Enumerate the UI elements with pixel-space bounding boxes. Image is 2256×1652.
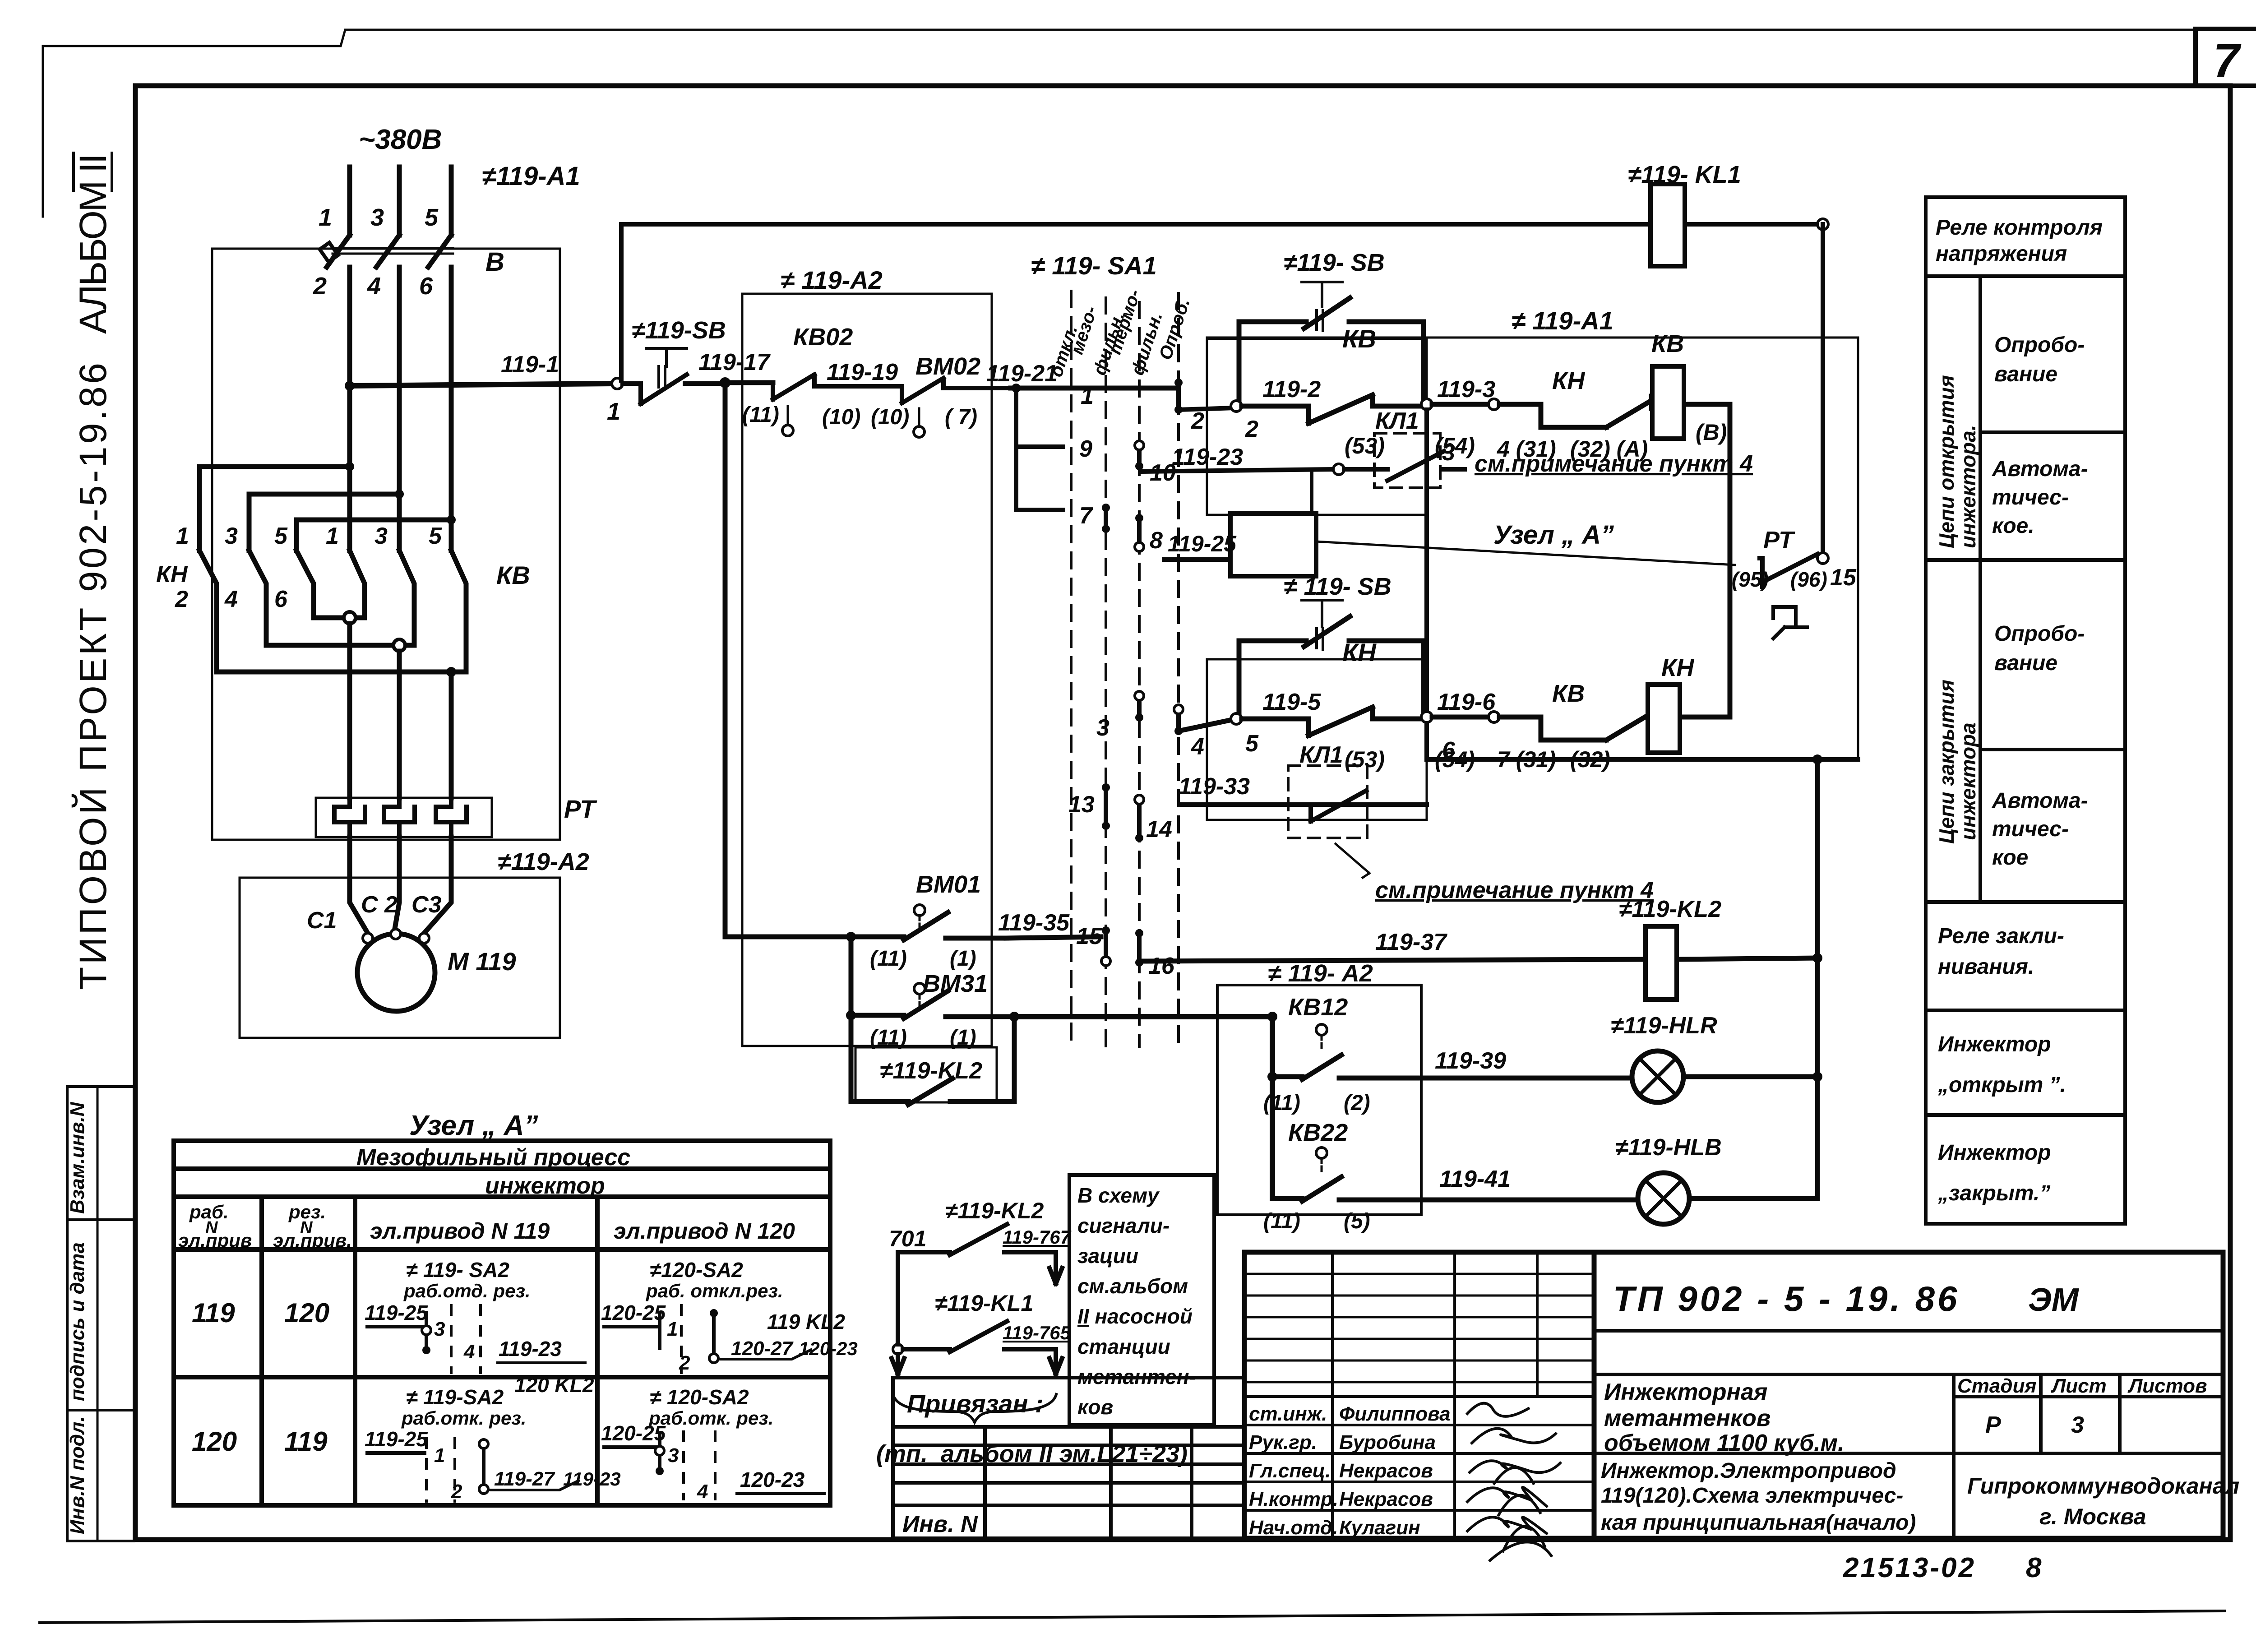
svg-text:(1): (1) xyxy=(950,1026,976,1050)
svg-text:1: 1 xyxy=(667,1318,678,1340)
svg-text:≠119- SB: ≠119- SB xyxy=(1284,249,1385,276)
svg-text:119(120).Схема электричес-: 119(120).Схема электричес- xyxy=(1601,1484,1903,1508)
dashed interlock box KL1 no.1 xyxy=(1374,433,1440,488)
dashed interlock box KL1 no.2 xyxy=(1288,766,1367,838)
svg-text:кое: кое xyxy=(1992,846,2028,870)
svg-text:4: 4 xyxy=(367,273,381,300)
node 119-1 junction xyxy=(345,378,623,391)
svg-text:Некрасов: Некрасов xyxy=(1339,1460,1433,1482)
svg-text:8: 8 xyxy=(2026,1552,2042,1583)
right rail from KL1 to PT xyxy=(1821,224,1825,558)
svg-text:объемом 1100 куб.м.: объемом 1100 куб.м. xyxy=(1604,1430,1845,1456)
contact 119-KL2 signal xyxy=(898,1224,1062,1284)
svg-text:(В): (В) xyxy=(1696,420,1727,445)
svg-text:6: 6 xyxy=(419,273,433,300)
mini diagram row1 col4 SA2 xyxy=(601,1258,858,1374)
svg-text:3: 3 xyxy=(2071,1412,2084,1438)
lamp 119-HLB xyxy=(1638,1173,1689,1224)
svg-text:(11): (11) xyxy=(1263,1209,1300,1233)
wire 119-21 to SA1 xyxy=(1011,386,1179,391)
svg-text:раб.отд. рез.: раб.отд. рез. xyxy=(403,1280,531,1301)
SA1 contact 13-14 xyxy=(1102,783,1144,842)
contact KL1 no.1 xyxy=(1374,451,1465,481)
svg-text:Н.контр.: Н.контр. xyxy=(1249,1488,1338,1510)
svg-text:ВМ02: ВМ02 xyxy=(915,353,980,380)
svg-text:Опробо-: Опробо- xyxy=(1994,333,2085,357)
svg-text:2: 2 xyxy=(1191,408,1204,434)
svg-text:см.альбом: см.альбом xyxy=(1077,1274,1188,1298)
svg-text:Инв.N подл.: Инв.N подл. xyxy=(66,1416,88,1534)
svg-text:119-6: 119-6 xyxy=(1437,689,1496,715)
contact BM01 xyxy=(725,905,1006,942)
thermal relay PT box xyxy=(316,798,492,837)
svg-text:АЛЬБОМ II: АЛЬБОМ II xyxy=(72,153,114,334)
svg-text:120: 120 xyxy=(284,1298,329,1328)
svg-text:13: 13 xyxy=(1068,791,1095,818)
phase wires to PT xyxy=(350,624,451,798)
relay KL1 rung wire xyxy=(621,219,1828,230)
svg-text:3: 3 xyxy=(225,523,238,549)
svg-text:119-37: 119-37 xyxy=(1375,929,1447,955)
svg-text:1: 1 xyxy=(1081,383,1094,409)
svg-text:Цепи закрытия: Цепи закрытия xyxy=(1935,680,1958,844)
rung2 wire with KH and KB contacts xyxy=(1179,707,1730,740)
svg-text:119-25: 119-25 xyxy=(365,1427,428,1451)
svg-text:КВ: КВ xyxy=(1552,680,1585,707)
branch bracket 9 and 7 xyxy=(1012,384,1063,510)
svg-text:119-17: 119-17 xyxy=(698,349,771,375)
svg-text:(11): (11) xyxy=(742,403,779,427)
svg-text:Узел „ А”: Узел „ А” xyxy=(409,1110,538,1141)
svg-text:6: 6 xyxy=(1442,737,1456,764)
svg-text:21513-02: 21513-02 xyxy=(1843,1552,1976,1583)
svg-text:эл.привод N 119: эл.привод N 119 xyxy=(370,1218,550,1244)
svg-text:ТП 902 - 5 - 19. 86: ТП 902 - 5 - 19. 86 xyxy=(1613,1279,1960,1319)
svg-text:≠119- KL1: ≠119- KL1 xyxy=(1628,161,1741,188)
coil KH xyxy=(1648,685,1680,753)
svg-text:5: 5 xyxy=(425,204,439,231)
svg-text:119: 119 xyxy=(192,1298,235,1328)
privyazan box xyxy=(893,1378,1244,1538)
svg-text:КВ02: КВ02 xyxy=(793,324,853,351)
svg-text:1: 1 xyxy=(434,1444,445,1467)
svg-text:Привязан :: Привязан : xyxy=(907,1389,1044,1418)
svg-text:инжектора.: инжектора. xyxy=(1956,425,1980,548)
svg-text:119-3: 119-3 xyxy=(1437,376,1495,403)
svg-text:КН: КН xyxy=(1552,367,1585,394)
revision table lines xyxy=(1244,1274,1594,1382)
wire 119-35 xyxy=(1006,937,1101,938)
phase drops below switch xyxy=(350,267,451,551)
node A box 119-25 xyxy=(1164,513,1735,576)
svg-text:4: 4 xyxy=(224,586,238,612)
svg-text:КВ: КВ xyxy=(1651,330,1684,357)
svg-text:С1: С1 xyxy=(307,907,337,934)
svg-text:4: 4 xyxy=(1191,734,1204,760)
svg-text:Автома-: Автома- xyxy=(1992,789,2088,813)
svg-text:3: 3 xyxy=(668,1444,679,1467)
svg-text:119-19: 119-19 xyxy=(827,359,898,385)
mini diagram row2 col4 SA2 xyxy=(601,1385,826,1503)
svg-text:2: 2 xyxy=(313,273,327,300)
sheet number box xyxy=(2196,29,2256,86)
feed wire into lamp box xyxy=(1014,1017,1272,1199)
svg-text:1: 1 xyxy=(319,204,332,231)
svg-text:( 7): ( 7) xyxy=(945,405,977,429)
svg-text:≠119-KL2: ≠119-KL2 xyxy=(1619,896,1721,922)
svg-text:4: 4 xyxy=(697,1481,708,1503)
rail to PT lower xyxy=(1427,410,1858,764)
svg-text:Реле закли-: Реле закли- xyxy=(1938,924,2064,948)
svg-text:вание: вание xyxy=(1994,362,2057,386)
svg-text:(2): (2) xyxy=(1344,1091,1370,1115)
svg-text:С 2: С 2 xyxy=(361,892,398,918)
svg-text:120: 120 xyxy=(192,1426,237,1457)
svg-text:≠119-KL1: ≠119-KL1 xyxy=(935,1291,1033,1316)
svg-text:ЭМ: ЭМ xyxy=(2028,1282,2080,1318)
coil 119-KL2 xyxy=(1646,926,1677,1000)
contact KB12 xyxy=(1272,1024,1421,1079)
svg-text:ТИПОВОЙ ПРОЕКТ 902-5-19.86: ТИПОВОЙ ПРОЕКТ 902-5-19.86 xyxy=(72,363,114,990)
svg-text:Мезофильный процесс: Мезофильный процесс xyxy=(356,1144,630,1171)
svg-text:Инжекторная: Инжекторная xyxy=(1604,1379,1767,1405)
svg-text:119-5: 119-5 xyxy=(1262,689,1321,715)
leader to note no.2 xyxy=(1336,844,1369,878)
mini diagram row1 col3 SA2 xyxy=(365,1258,587,1374)
svg-text:Взам.инв.N: Взам.инв.N xyxy=(66,1101,88,1214)
wire 119-39 to lamp HLR xyxy=(1421,1077,1817,1078)
svg-text:эл.прив.: эл.прив. xyxy=(273,1230,352,1251)
contact group ties upper xyxy=(199,462,456,524)
SA1 contact 1-2 xyxy=(1174,379,1234,414)
svg-text:КВ: КВ xyxy=(496,561,530,589)
svg-text:„открыт ”.: „открыт ”. xyxy=(1937,1073,2066,1097)
svg-text:119-1: 119-1 xyxy=(501,352,559,378)
svg-text:(10): (10) xyxy=(871,405,909,429)
contact 119-KL1 signal xyxy=(893,1321,1062,1374)
svg-text:КЛ1: КЛ1 xyxy=(1375,408,1419,434)
svg-text:119-23: 119-23 xyxy=(1172,444,1243,470)
svg-text:119-25: 119-25 xyxy=(365,1301,428,1324)
svg-text:Некрасов: Некрасов xyxy=(1339,1488,1433,1510)
svg-text:(95): (95) xyxy=(1732,568,1769,591)
pushbutton 119-SB no.3 loop xyxy=(1239,600,1424,717)
svg-text:8: 8 xyxy=(1150,528,1163,554)
svg-text:г. Москва: г. Москва xyxy=(2039,1504,2146,1529)
svg-text:3: 3 xyxy=(1096,715,1110,741)
svg-text:≠ 119- SB: ≠ 119- SB xyxy=(1284,573,1392,600)
svg-text:Реле контроля: Реле контроля xyxy=(1936,216,2103,240)
svg-text:ВМ01: ВМ01 xyxy=(916,871,981,898)
svg-text:М 119: М 119 xyxy=(448,947,516,976)
svg-text:1: 1 xyxy=(607,398,620,425)
contact KB02 xyxy=(773,375,902,436)
svg-text:120-23: 120-23 xyxy=(799,1338,858,1359)
contact BM31 xyxy=(846,937,1019,1022)
SA1 dashed position lines xyxy=(1071,291,1179,1047)
svg-text:119-39: 119-39 xyxy=(1435,1048,1506,1074)
svg-text:Инжектор: Инжектор xyxy=(1938,1032,2051,1056)
thin box around rung 2 xyxy=(1207,659,1427,820)
svg-text:(5): (5) xyxy=(1344,1209,1370,1233)
svg-text:6: 6 xyxy=(274,586,288,612)
svg-text:кое.: кое. xyxy=(1992,514,2034,538)
svg-text:Узел „ А”: Узел „ А” xyxy=(1493,520,1614,550)
svg-text:≠120-SA2: ≠120-SA2 xyxy=(650,1258,743,1282)
svg-text:4: 4 xyxy=(463,1341,475,1363)
svg-text:2: 2 xyxy=(175,586,188,612)
svg-text:КН: КН xyxy=(1661,654,1694,681)
svg-text:(11): (11) xyxy=(870,947,907,971)
wire 119-33 xyxy=(1180,802,1427,807)
svg-text:≠ 119- SA1: ≠ 119- SA1 xyxy=(1031,251,1157,280)
svg-text:ков: ков xyxy=(1077,1395,1113,1419)
svg-text:КВ22: КВ22 xyxy=(1288,1119,1348,1146)
svg-text:В: В xyxy=(485,247,504,277)
SA1 contact 9-10 xyxy=(1135,441,1144,470)
switch B blades xyxy=(320,235,453,267)
enclosure box 119-A1 xyxy=(212,249,560,840)
svg-text:119-765: 119-765 xyxy=(1003,1322,1071,1343)
svg-text:инжектор: инжектор xyxy=(485,1173,605,1199)
svg-text:≠ 119-А2: ≠ 119-А2 xyxy=(781,266,883,294)
svg-text:3: 3 xyxy=(434,1318,445,1340)
signatures xyxy=(1466,1403,1561,1561)
svg-text:≠119-НLB: ≠119-НLB xyxy=(1615,1134,1722,1161)
svg-text:(32): (32) xyxy=(1570,747,1610,772)
svg-text:раб. откл.рез.: раб. откл.рез. xyxy=(646,1280,783,1301)
svg-text:119-23: 119-23 xyxy=(499,1337,562,1360)
svg-text:РТ: РТ xyxy=(564,795,597,823)
svg-text:7: 7 xyxy=(2213,34,2242,87)
svg-text:≠ 119- А2: ≠ 119- А2 xyxy=(1268,960,1373,987)
svg-text:(53): (53) xyxy=(1345,747,1385,772)
svg-text:инжектора: инжектора xyxy=(1956,722,1980,840)
svg-text:Гл.спец.: Гл.спец. xyxy=(1249,1460,1331,1482)
svg-text:КВ12: КВ12 xyxy=(1288,994,1348,1021)
svg-text:тичес-: тичес- xyxy=(1992,817,2069,841)
svg-text:119-25: 119-25 xyxy=(1168,531,1237,556)
svg-text:сигнали-: сигнали- xyxy=(1077,1214,1170,1237)
svg-text:ст.инж.: ст.инж. xyxy=(1249,1403,1327,1425)
svg-text:1: 1 xyxy=(176,523,189,549)
svg-text:С3: С3 xyxy=(411,892,442,918)
svg-text:Инжектор.Электропривод: Инжектор.Электропривод xyxy=(1601,1459,1896,1483)
wire 119-41 to lamp HLB xyxy=(1421,1186,1817,1200)
svg-text:Лист: Лист xyxy=(2051,1375,2107,1397)
svg-text:Цепи открытия: Цепи открытия xyxy=(1935,375,1958,548)
svg-text:КВ: КВ xyxy=(1342,324,1376,353)
right cells lines xyxy=(1594,1331,2223,1538)
svg-text:подпись и дата: подпись и дата xyxy=(66,1242,88,1401)
node A table grid xyxy=(174,1141,830,1505)
svg-text:(1): (1) xyxy=(950,947,976,971)
svg-text:КН: КН xyxy=(1342,638,1377,666)
svg-text:14: 14 xyxy=(1146,816,1172,842)
svg-text:кая принципиальная(начало): кая принципиальная(начало) xyxy=(1601,1511,1916,1535)
svg-text:119-35: 119-35 xyxy=(998,910,1070,936)
svg-text:≠119-KL2: ≠119-KL2 xyxy=(945,1198,1044,1223)
svg-text:120 KL2: 120 KL2 xyxy=(514,1373,594,1397)
svg-text:раб.отк. рез.: раб.отк. рез. xyxy=(401,1407,526,1429)
thin box around rung 1 xyxy=(1207,339,1427,515)
svg-text:Буробина: Буробина xyxy=(1339,1431,1436,1453)
svg-text:≠119-SB: ≠119-SB xyxy=(632,317,726,344)
svg-text:Стадия: Стадия xyxy=(1957,1375,2036,1397)
svg-text:119: 119 xyxy=(284,1426,328,1457)
motor M119 xyxy=(357,929,435,1011)
contact BM02 xyxy=(902,378,1011,437)
contact 119-KL2 loop xyxy=(851,1015,1014,1105)
svg-text:701: 701 xyxy=(889,1226,926,1251)
svg-text:станции: станции xyxy=(1077,1335,1170,1358)
enclosure top line 119-A1 right xyxy=(1207,338,1858,759)
svg-text:„закрыт.”: „закрыт.” xyxy=(1937,1181,2050,1205)
brace xyxy=(893,1394,1056,1422)
contact PT with hook xyxy=(1760,553,1828,639)
svg-text:≠ 119- SA2: ≠ 119- SA2 xyxy=(406,1258,509,1282)
svg-text:(11): (11) xyxy=(870,1026,907,1050)
svg-text:≠ 119-SA2: ≠ 119-SA2 xyxy=(406,1385,504,1409)
svg-text:120-25: 120-25 xyxy=(601,1421,666,1445)
svg-text:119-41: 119-41 xyxy=(1439,1166,1511,1192)
svg-text:120-25: 120-25 xyxy=(601,1301,666,1324)
svg-text:15: 15 xyxy=(1830,565,1857,591)
svg-text:3: 3 xyxy=(1442,440,1455,466)
svg-text:≠119-KL2: ≠119-KL2 xyxy=(880,1058,982,1084)
svg-text:120-23: 120-23 xyxy=(740,1468,805,1491)
svg-text:ВМ31: ВМ31 xyxy=(923,970,988,997)
svg-text:7 (31): 7 (31) xyxy=(1497,747,1556,772)
svg-text:эл.привод N 120: эл.привод N 120 xyxy=(614,1218,795,1244)
svg-text:2: 2 xyxy=(451,1481,462,1503)
left stamp boxes xyxy=(67,1087,134,1541)
svg-text:7: 7 xyxy=(1079,503,1093,529)
svg-text:эл.прив: эл.прив xyxy=(178,1230,252,1251)
main title block frame xyxy=(1244,1252,2223,1538)
SA1 contact 7-8 xyxy=(1102,504,1144,551)
pushbutton 119-SB no.2 loop xyxy=(1239,282,1424,404)
svg-text:см.примечание пункт 4: см.примечание пункт 4 xyxy=(1375,877,1654,903)
rung1 wire with KB and KH contacts xyxy=(1231,395,1730,717)
svg-text:Филиппова: Филиппова xyxy=(1339,1403,1451,1425)
svg-text:~380В: ~380В xyxy=(359,124,442,155)
svg-text:5: 5 xyxy=(429,523,442,549)
lower rail to lamps xyxy=(1812,759,1822,1186)
svg-text:(96): (96) xyxy=(1790,568,1827,591)
wires PT to motor xyxy=(350,837,451,933)
coil KB xyxy=(1652,366,1684,439)
svg-text:Автома-: Автома- xyxy=(1992,457,2088,481)
enclosure box 119-A2 control xyxy=(742,294,992,1046)
svg-text:Р: Р xyxy=(1985,1412,2001,1438)
wire 119-37 xyxy=(1144,958,1817,961)
contact KB22 xyxy=(1272,1148,1421,1201)
svg-text:9: 9 xyxy=(1079,436,1092,462)
svg-text:РТ: РТ xyxy=(1763,527,1795,554)
svg-text:≠119-А1: ≠119-А1 xyxy=(482,162,580,191)
KB contact blades xyxy=(350,551,466,672)
node 119-17 xyxy=(720,377,730,388)
three-phase supply lines xyxy=(350,167,451,235)
svg-text:II насосной: II насосной xyxy=(1077,1305,1193,1328)
SA1 contact 15-16 xyxy=(1101,926,1143,967)
svg-text:Гипрокоммунводоканал: Гипрокоммунводоканал xyxy=(1967,1473,2239,1499)
contact KL1 no.2 xyxy=(1299,791,1374,821)
svg-text:≠119-А2: ≠119-А2 xyxy=(498,848,589,875)
svg-text:(11): (11) xyxy=(1263,1091,1300,1115)
left wire with arrow xyxy=(892,1252,904,1374)
svg-text:тичес-: тичес- xyxy=(1992,486,2069,509)
svg-text:3: 3 xyxy=(374,523,388,549)
svg-text:120-27: 120-27 xyxy=(731,1337,794,1360)
coil 119-KL1 xyxy=(1650,184,1685,266)
svg-text:Инжектор: Инжектор xyxy=(1938,1141,2051,1165)
SA1 contact 3-4 xyxy=(1135,691,1183,735)
svg-text:119 KL2: 119 KL2 xyxy=(767,1310,845,1333)
svg-text:Кулагин: Кулагин xyxy=(1339,1517,1420,1539)
svg-text:5: 5 xyxy=(1245,731,1259,757)
enclosure box 119-A2 motor xyxy=(240,878,560,1038)
svg-text:Листов: Листов xyxy=(2127,1375,2207,1397)
svg-text:16: 16 xyxy=(1148,953,1175,979)
svg-text:вание: вание xyxy=(1994,651,2057,675)
svg-text:119-767: 119-767 xyxy=(1003,1226,1072,1248)
svg-text:(10): (10) xyxy=(822,405,860,429)
svg-text:5: 5 xyxy=(274,523,288,549)
svg-text:нивания.: нивания. xyxy=(1938,955,2034,979)
svg-text:119-2: 119-2 xyxy=(1262,376,1321,403)
svg-text:119-23: 119-23 xyxy=(563,1468,621,1490)
svg-text:≠119-НLR: ≠119-НLR xyxy=(1611,1013,1717,1039)
svg-text:напряжения: напряжения xyxy=(1936,242,2067,266)
annotation table grid xyxy=(1926,197,2125,1224)
svg-text:1: 1 xyxy=(326,523,339,549)
note box в схему сигнализации xyxy=(1069,1175,1214,1425)
svg-text:Инв. N: Инв. N xyxy=(902,1511,978,1537)
wire 119-23 xyxy=(1142,464,1374,513)
svg-text:КЛ1: КЛ1 xyxy=(1299,742,1343,768)
svg-text:2: 2 xyxy=(1245,416,1258,442)
svg-text:3: 3 xyxy=(370,204,384,231)
svg-text:зации: зации xyxy=(1077,1244,1138,1268)
svg-text:КН: КН xyxy=(156,561,188,588)
svg-text:раб.отк. рез.: раб.отк. рез. xyxy=(648,1407,773,1429)
svg-text:Нач.отд.: Нач.отд. xyxy=(1249,1517,1338,1539)
svg-text:Рук.гр.: Рук.гр. xyxy=(1249,1431,1317,1453)
lamp 119-HLR xyxy=(1632,1051,1683,1102)
mini diagram row2 col3 SA2 xyxy=(365,1373,621,1503)
svg-text:(53): (53) xyxy=(1345,433,1385,458)
svg-text:119-33: 119-33 xyxy=(1179,773,1250,800)
wire 119-17 to KB02 xyxy=(725,380,773,385)
svg-text:метантенков: метантенков xyxy=(1604,1405,1771,1431)
svg-text:119-27: 119-27 xyxy=(494,1468,555,1490)
enclosure box 119-A2 lamps xyxy=(1217,985,1421,1215)
svg-text:см.примечание пункт 4: см.примечание пункт 4 xyxy=(1475,451,1753,477)
svg-text:≠ 119-А1: ≠ 119-А1 xyxy=(1512,306,1613,335)
svg-text:≠ 120-SA2: ≠ 120-SA2 xyxy=(650,1385,749,1409)
svg-text:Опробо-: Опробо- xyxy=(1994,622,2085,646)
staff table lines xyxy=(1244,1252,1594,1538)
pushbutton 119-SB no.1 xyxy=(623,348,720,404)
collector ties lower xyxy=(217,612,466,677)
KH contact stubs and blades xyxy=(199,467,314,672)
wire up to KL1 rung xyxy=(619,224,624,380)
svg-text:В схему: В схему xyxy=(1077,1184,1160,1207)
